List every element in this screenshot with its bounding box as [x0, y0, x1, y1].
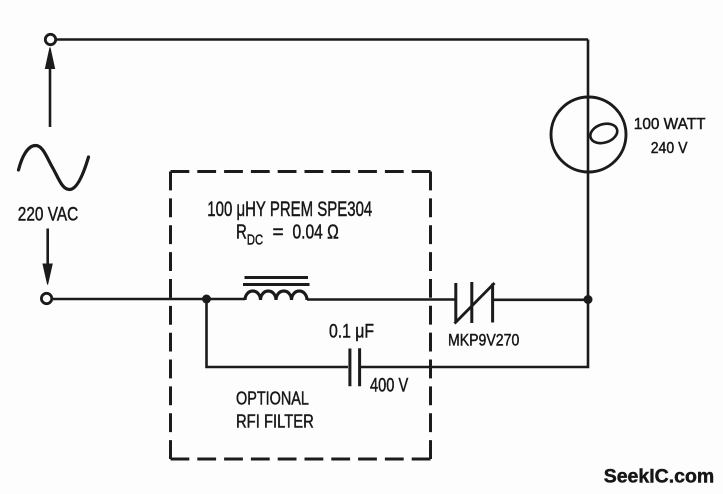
wire bottom from T2 to node A: [53, 298, 206, 301]
svg-text:100 WATT: 100 WATT: [634, 116, 706, 133]
wire inductor to varistor: [307, 298, 455, 301]
inductor L1 core lines: [243, 278, 310, 285]
wire node A to inductor: [207, 298, 246, 301]
terminal T1 top-left: [45, 34, 55, 44]
sine wave AC source symbol: [19, 146, 89, 190]
wire top from T1 to right corner: [57, 38, 588, 41]
svg-text:0.1 μF: 0.1 μF: [329, 320, 374, 342]
terminal T2 bottom-left: [41, 293, 51, 303]
wire right vertical from top corner down to node B: [587, 40, 590, 300]
svg-text:220 VAC: 220 VAC: [18, 203, 78, 225]
node B junction dot: [584, 295, 593, 304]
source arrow up: [45, 48, 54, 128]
source arrow down: [43, 229, 52, 285]
wire capacitor to node B: [361, 301, 588, 367]
varistor RV1 diagonal stroke: [455, 283, 495, 324]
svg-text:OPTIONAL: OPTIONAL: [236, 388, 309, 409]
svg-text:MKP9V270: MKP9V270: [448, 331, 520, 349]
svg-text:SeekIC.com: SeekIC.com: [604, 466, 715, 488]
varistor RV1 electrodes: [456, 282, 493, 323]
svg-text:100 μHY PREM SPE304: 100 μHY PREM SPE304: [207, 196, 372, 220]
dashed box OPTIONAL RFI FILTER: [171, 172, 431, 460]
node A junction dot: [202, 295, 211, 304]
svg-text:240 V: 240 V: [651, 139, 688, 157]
lamp DS1 circle: [551, 97, 626, 172]
wire varistor to node B: [494, 298, 585, 301]
wire branch node A down and to capacitor: [207, 299, 349, 367]
svg-text:400 V: 400 V: [370, 375, 409, 396]
capacitor C1 plates: [350, 348, 360, 386]
svg-text:RFI FILTER: RFI FILTER: [236, 411, 314, 432]
lamp DS1 filament ellipse: [588, 120, 620, 146]
svg-text:0.04 Ω: 0.04 Ω: [293, 221, 339, 243]
inductor L1 coil: [245, 291, 307, 300]
svg-text:=: =: [273, 221, 284, 244]
